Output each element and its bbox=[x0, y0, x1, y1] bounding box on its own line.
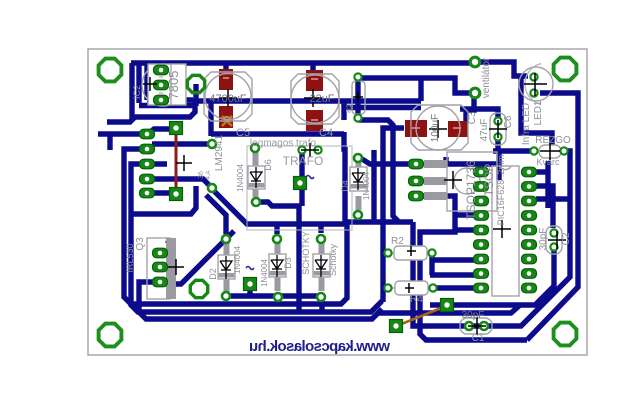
wire crystal right to bottom bus bbox=[413, 151, 570, 326]
wire y106 line bbox=[344, 105, 421, 110]
wire top rail to ventilator bbox=[131, 60, 470, 65]
diode D4 leads bbox=[356, 161, 362, 169]
diode D3 pads bbox=[273, 235, 281, 243]
LED1 pads bbox=[530, 73, 537, 80]
wire D5 top stub bbox=[318, 224, 323, 233]
wire bus y134 bbox=[211, 131, 344, 136]
wire via y144 bbox=[152, 141, 212, 146]
svg-text:IC2: IC2 bbox=[132, 85, 142, 99]
diode D4 pads bbox=[354, 154, 362, 162]
diode D4 body bbox=[350, 167, 367, 191]
diode D3 symbol bbox=[271, 255, 283, 277]
diode D3 body bbox=[269, 254, 286, 277]
mounting hole top-right bbox=[554, 58, 577, 81]
capacitor C5 outline bbox=[204, 72, 252, 121]
wire bottom bus L3 bbox=[139, 282, 382, 319]
wire Q3 stubs bbox=[161, 253, 176, 267]
wire link x209 bbox=[208, 101, 213, 136]
wire R1 bottom feed bbox=[358, 120, 398, 221]
wire 7805 pad stubs bbox=[147, 64, 161, 85]
wire octagon pad stub bbox=[193, 84, 198, 106]
wire second vertical bbox=[136, 63, 141, 103]
svg-text:47uF: 47uF bbox=[479, 119, 490, 142]
diode D2 symbol bbox=[220, 256, 232, 279]
svg-text:PIC16F628 .2mm: PIC16F628 .2mm bbox=[496, 155, 506, 226]
capacitor C3 right pad bbox=[448, 121, 468, 137]
wire pad4 to via bbox=[147, 179, 212, 188]
capacitor C2 outline bbox=[546, 226, 562, 254]
wire bbox=[98, 62, 578, 340]
IC U1 PIC16F628 body bbox=[492, 166, 519, 296]
svg-text:D6: D6 bbox=[263, 159, 273, 171]
octagon pad near 7805 bbox=[187, 75, 204, 92]
diode D5 body bbox=[313, 254, 330, 277]
IC U1 left pads bbox=[474, 167, 489, 177]
diode D5 leads bbox=[319, 243, 325, 256]
node C1 origin bbox=[468, 317, 486, 335]
wire diag1 bbox=[212, 189, 347, 224]
node C5 origin bbox=[219, 89, 237, 107]
svg-text:Q3: Q3 bbox=[135, 237, 146, 251]
svg-text:legmagos trafo: legmagos trafo bbox=[250, 138, 317, 149]
origin cross markers bbox=[143, 73, 566, 335]
crystal Q1 outline bbox=[539, 145, 561, 158]
node LED1 origin bbox=[524, 73, 547, 96]
node R4 origin bbox=[405, 283, 414, 293]
capacitor C5 top pad bbox=[219, 69, 233, 90]
ventilator pads bbox=[470, 57, 480, 67]
svg-text:4700uF: 4700uF bbox=[209, 93, 247, 105]
wire R2 left stub bbox=[383, 250, 386, 255]
transistor Q3 pads bbox=[153, 248, 168, 258]
node C3 origin bbox=[429, 120, 447, 138]
node LM2941 origin bbox=[176, 155, 192, 171]
svg-text:C5: C5 bbox=[236, 127, 250, 139]
mounting hole bottom-right bbox=[554, 323, 577, 346]
svg-text:ventilátor: ventilátor bbox=[481, 57, 492, 98]
svg-text:D4: D4 bbox=[340, 180, 350, 192]
wire crystal left to C6 bbox=[493, 137, 534, 151]
svg-text:www.kapcsolasok.hu: www.kapcsolasok.hu bbox=[249, 338, 391, 355]
square pad trafo bbox=[294, 177, 307, 190]
regulator IC2 pads bbox=[159, 77, 163, 93]
capacitor C1 pads bbox=[465, 322, 473, 330]
red top-layer wire bbox=[175, 133, 178, 189]
wire square pad to pad1 bbox=[149, 129, 176, 133]
wire square pad y305 bbox=[430, 302, 447, 307]
capacitor C6 pads bbox=[494, 117, 501, 124]
connector J1 pads bbox=[140, 129, 155, 139]
wire stub C4 plus bbox=[310, 63, 315, 72]
diode D5 pads bbox=[317, 235, 325, 243]
wire diag2 bbox=[206, 195, 226, 234]
diode D6 symbol bbox=[250, 167, 262, 188]
wire TSOP pad3 feed bbox=[417, 196, 527, 340]
capacitor C2 pads bbox=[550, 229, 557, 236]
orange top-layer wire bbox=[399, 306, 446, 325]
diode D2 pads bbox=[222, 235, 230, 243]
svg-text:D3: D3 bbox=[283, 257, 293, 269]
transistor Q3 body bbox=[147, 238, 170, 299]
svg-text:SCHOTKY: SCHOTKY bbox=[301, 231, 311, 275]
top layer red bbox=[176, 69, 468, 325]
wire C3 right pad feed bbox=[466, 95, 474, 122]
node IC2 origin bbox=[143, 77, 157, 91]
diode D2 leads bbox=[224, 243, 230, 257]
svg-text:1N4004: 1N4004 bbox=[260, 258, 269, 287]
svg-text:D2: D2 bbox=[208, 268, 218, 280]
svg-text:TSOP: TSOP bbox=[482, 164, 496, 197]
via A bbox=[208, 140, 216, 148]
wire bottom bus L2 bbox=[131, 164, 382, 312]
svg-text:1N4004: 1N4004 bbox=[362, 171, 371, 200]
IC TSOP1736 leads bbox=[424, 160, 447, 168]
resistor R4 pads bbox=[384, 284, 391, 291]
svg-text:TRAFO: TRAFO bbox=[283, 154, 324, 168]
svg-text:1N4004: 1N4004 bbox=[236, 163, 245, 192]
wire R1 through bbox=[355, 77, 360, 118]
svg-text:Kvarc: Kvarc bbox=[536, 157, 560, 167]
mounting hole bottom-left bbox=[99, 324, 122, 347]
resistor R1 pads bbox=[354, 73, 361, 80]
minus mark C5 bbox=[223, 77, 229, 79]
capacitor C3 left pad bbox=[405, 120, 427, 137]
svg-text:22uF: 22uF bbox=[309, 93, 334, 105]
svg-text:R1: R1 bbox=[346, 104, 353, 113]
square pad mid bbox=[244, 278, 257, 291]
svg-text:R4: R4 bbox=[410, 294, 423, 305]
svg-text:100uF: 100uF bbox=[430, 114, 441, 142]
node C2 origin bbox=[548, 231, 566, 249]
svg-text:C2: C2 bbox=[561, 232, 572, 245]
wire R4 left stub bbox=[383, 285, 386, 290]
diode D2 body bbox=[218, 255, 235, 279]
resistor R4 outline bbox=[395, 281, 428, 295]
transformer pads bbox=[298, 146, 305, 153]
IC TSOP1736 body bbox=[447, 152, 497, 211]
svg-text:LED1: LED1 bbox=[533, 100, 544, 125]
wire D4 loop right bbox=[371, 150, 376, 222]
capacitor C6 outline bbox=[490, 113, 506, 145]
node Q3 origin bbox=[168, 259, 184, 275]
svg-text:LM2941: LM2941 bbox=[214, 134, 225, 171]
svg-text:Schotky: Schotky bbox=[328, 243, 338, 276]
square pad orange left bbox=[390, 320, 403, 333]
LED1 outline bbox=[525, 64, 541, 105]
svg-text:C4: C4 bbox=[319, 127, 333, 139]
wire trafo down bbox=[299, 150, 304, 180]
svg-text:R2: R2 bbox=[391, 236, 404, 247]
svg-text:REZGO: REZGO bbox=[535, 135, 571, 146]
wire C6 top stub bbox=[460, 109, 498, 121]
transformer TR1 outline bbox=[247, 146, 352, 230]
minus mark C3 bbox=[412, 127, 420, 129]
diode D3 leads bbox=[275, 243, 281, 256]
node C6 origin bbox=[489, 120, 507, 138]
node U1 origin bbox=[493, 220, 511, 238]
capacitor C1 outline bbox=[460, 318, 492, 334]
wire stub C5 plus bbox=[223, 63, 228, 71]
wire U mid bbox=[130, 186, 196, 214]
wire D4 loop bbox=[345, 147, 413, 222]
capacitor C5 bottom pad bbox=[219, 106, 233, 128]
svg-text:TSOP1736: TSOP1736 bbox=[464, 160, 478, 220]
capacitor C4 outline bbox=[291, 74, 339, 124]
wire 7805 loop left bbox=[147, 63, 193, 100]
board outline bbox=[88, 49, 587, 355]
node tilde marks bbox=[246, 176, 314, 270]
wire PIC right stub to C2 bbox=[536, 186, 553, 228]
wire y134 to D4 loop bbox=[344, 132, 346, 149]
diode D5 symbol bbox=[315, 255, 327, 277]
node TSOP origin bbox=[444, 171, 462, 189]
svg-text:C3: C3 bbox=[467, 111, 478, 124]
diode D6 body bbox=[248, 166, 265, 189]
svg-text:1N4004: 1N4004 bbox=[233, 245, 242, 274]
capacitor C3 outline bbox=[411, 105, 468, 150]
node R2 origin bbox=[407, 246, 416, 256]
wire vent1 to LED pad1 bbox=[470, 62, 528, 76]
capacitor C4 top pad bbox=[306, 70, 323, 91]
wire D3 top stub bbox=[274, 224, 279, 234]
svg-text:C6: C6 bbox=[503, 115, 514, 128]
octagon pad mid bbox=[190, 280, 207, 297]
diode D6 pads bbox=[251, 144, 259, 152]
node R1 origin bbox=[353, 92, 363, 102]
wire C3 left vertical bus bbox=[383, 128, 404, 302]
wire bottom bus L1 bbox=[124, 149, 347, 304]
svg-text:4.A: 4.A bbox=[206, 170, 212, 179]
wire LED pad2 to right edge bus bbox=[527, 93, 578, 340]
wire y313 bus bbox=[377, 305, 520, 313]
svg-text:IRL530: IRL530 bbox=[125, 243, 135, 272]
wire B up to y78 bbox=[418, 78, 423, 101]
node C4 origin bbox=[304, 89, 322, 107]
label www.kapcsolasok.hu mirrored bbox=[249, 338, 391, 355]
silkscreen bbox=[142, 64, 564, 334]
diode D6 leads bbox=[253, 152, 259, 167]
IC U1 right pads bbox=[522, 167, 537, 177]
minus mark C4 bbox=[311, 78, 318, 80]
orange X marker C5 bbox=[222, 116, 232, 126]
diode D4 symbol bbox=[352, 168, 364, 190]
wire J1 right stubs bbox=[147, 164, 170, 193]
wire left corner stub bbox=[129, 63, 134, 119]
wire trafo square to D6 bbox=[256, 186, 302, 310]
wire C2 bottom stub bbox=[447, 247, 554, 305]
wire PIC right stub r1 bbox=[536, 161, 548, 208]
wire branch x344 bbox=[341, 101, 346, 120]
wire R2 pads link bbox=[429, 253, 434, 275]
via B bbox=[208, 184, 216, 192]
svg-text:Infra LED: Infra LED bbox=[521, 103, 532, 145]
wire bus B y101 bbox=[193, 98, 421, 103]
node TR1 origin bbox=[301, 143, 319, 157]
svg-text:30pF: 30pF bbox=[538, 228, 549, 251]
wire R1 top rail to vent2 and C3 bbox=[358, 78, 470, 93]
wire square pad stub bbox=[247, 284, 252, 296]
resistor R2 outline bbox=[394, 246, 427, 260]
wire LED1 branch down bbox=[521, 76, 552, 147]
capacitor C4 bottom pad bbox=[306, 110, 323, 131]
node Q1 origin bbox=[540, 142, 560, 160]
square pad red wire bottom bbox=[170, 188, 183, 201]
resistor R1 outline bbox=[352, 81, 365, 114]
square pad orange right bbox=[441, 299, 454, 312]
wire PIC left stubs bbox=[430, 260, 481, 288]
regulator IC2 7805 outline bbox=[142, 64, 184, 106]
svg-text:36: 36 bbox=[198, 171, 205, 179]
svg-text:C1: C1 bbox=[472, 333, 485, 344]
crystal pads bbox=[530, 147, 537, 154]
svg-text:30pF: 30pF bbox=[462, 310, 485, 321]
wire TSOP pad1 to D4 bbox=[362, 159, 416, 164]
IC TSOP1736 pads bbox=[409, 159, 424, 169]
resistor R2 pads bbox=[384, 249, 391, 256]
square pad red wire top bbox=[170, 122, 183, 135]
wire TSOP area to PIC bbox=[446, 151, 499, 180]
wire J1 pad1 left bbox=[98, 134, 141, 150]
wire PIC right stub r3 bbox=[536, 196, 572, 201]
wire diag to Q3 bbox=[161, 231, 234, 284]
wire diode bottom bus bbox=[226, 296, 322, 311]
svg-text:7805: 7805 bbox=[166, 71, 181, 100]
mounting hole top-left bbox=[99, 59, 122, 82]
